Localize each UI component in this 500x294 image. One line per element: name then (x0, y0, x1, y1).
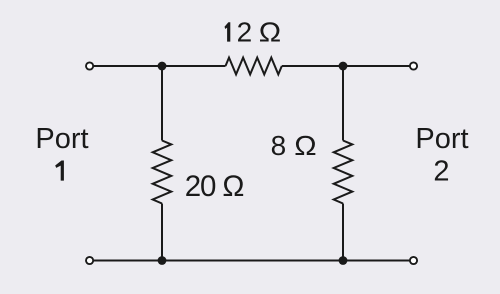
svg-text:8: 8 (271, 130, 287, 161)
svg-text:Ω: Ω (294, 131, 316, 162)
svg-text:Port: Port (415, 123, 468, 155)
resistor R2 20ohm zigzag (153, 141, 172, 204)
port terminal bottom-right open circle (410, 257, 417, 264)
node junction dot top-left (158, 62, 167, 71)
node junction dot bottom-left (158, 256, 167, 265)
wire left branch lower (161, 204, 163, 261)
port terminal top-right open circle (410, 62, 417, 69)
resistor R3 8ohm zigzag (334, 141, 353, 204)
svg-text:Ω: Ω (259, 18, 281, 49)
wire right branch lower (342, 204, 344, 261)
resistor R1 12ohm zigzag (226, 58, 282, 75)
wire right branch upper (342, 66, 344, 141)
node junction dot top-right (339, 62, 348, 71)
svg-text:2: 2 (237, 17, 253, 48)
wire left branch upper (161, 66, 163, 141)
port terminal top-left open circle (86, 62, 93, 69)
svg-text:Port: Port (35, 123, 88, 155)
wire top rail right segment (282, 65, 410, 67)
svg-text:20 Ω: 20 Ω (185, 170, 244, 203)
svg-text:2: 2 (433, 156, 449, 188)
port terminal bottom-left open circle (86, 257, 93, 264)
label R1 value digit 1 (225, 22, 231, 41)
node junction dot bottom-right (339, 256, 348, 265)
wire bottom rail (93, 260, 410, 262)
wire top rail left segment (93, 65, 225, 67)
label Port 1 line2 digit 1 (55, 161, 64, 181)
